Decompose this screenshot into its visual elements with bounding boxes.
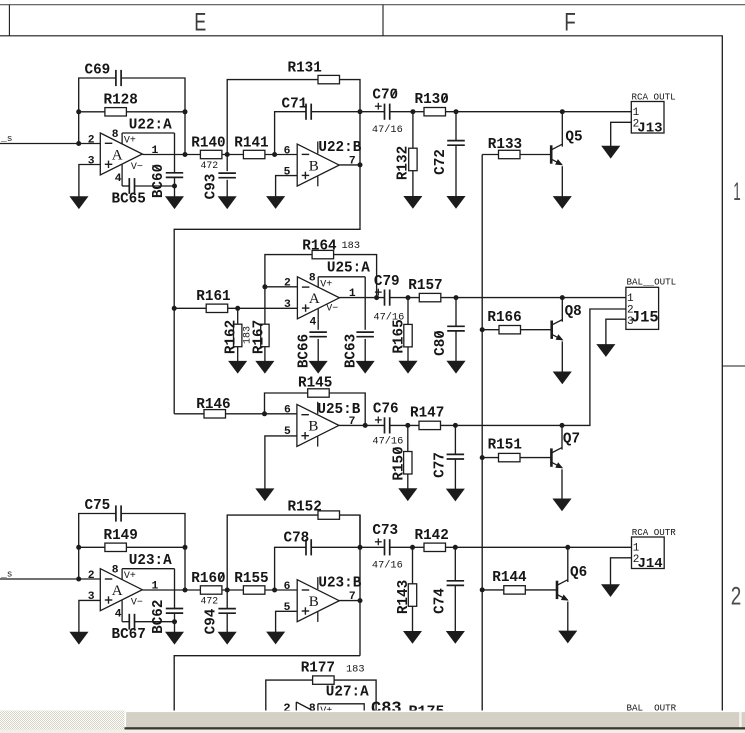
junction Q8 collector node [560, 295, 565, 300]
wire U23:A pin3 to ground [79, 600, 100, 632]
svg-text:C78: C78 [284, 531, 310, 547]
wire C94 lower [226, 613, 228, 632]
junction input node U22:A pin2 [76, 141, 81, 146]
label R157 [408, 278, 442, 294]
junction BC62/BC67 node [172, 619, 177, 624]
label C74 [432, 588, 448, 614]
wire U23 box right edge upper [174, 569, 176, 609]
label BC67 [112, 627, 146, 643]
junction R165 top [406, 295, 411, 300]
resistor R128 [105, 108, 127, 116]
svg-text:C79: C79 [374, 274, 400, 290]
pin 1 label J13 [633, 107, 640, 119]
junction R155/C78 node [272, 588, 277, 593]
value 47/16 of C79 [373, 311, 404, 323]
resistor R161 [206, 304, 228, 312]
svg-text:B: B [309, 594, 319, 610]
wire U22:B pin5 to ground [276, 176, 298, 197]
svg-text:J13: J13 [637, 120, 662, 136]
svg-text:A: A [112, 583, 123, 599]
ground J15 pin3 [597, 345, 615, 357]
wire C74 lower [454, 585, 456, 631]
wire R167 lower [264, 347, 266, 362]
wire R167 upper [264, 287, 266, 324]
resistor R155 [243, 586, 265, 594]
junction R164 output node [374, 295, 379, 300]
connector J13 [631, 102, 664, 134]
row label 1 [733, 178, 741, 206]
capacitor BC63 [356, 332, 374, 337]
pin label 2 U27:A [283, 701, 290, 715]
wire C69 to R128 right leg [121, 78, 185, 112]
label C71 [282, 97, 308, 113]
resistor R149 [105, 543, 127, 551]
pin label 7 U22:B [349, 155, 356, 167]
wire R128 row left [79, 111, 105, 113]
svg-text:R131: R131 [288, 61, 322, 77]
page frame right border [721, 36, 723, 711]
label C76 [373, 401, 399, 417]
wire R144 row [482, 589, 504, 591]
capacitor C76 (polarized) [385, 417, 390, 433]
pin label 2 U23:A [88, 570, 95, 582]
svg-text:_s: _s [0, 569, 12, 580]
svg-text:R177: R177 [301, 661, 335, 677]
pin label 6 U22:B [284, 145, 291, 157]
wire R128 row right [126, 111, 185, 113]
resistor R162 [234, 324, 242, 347]
resistor R177 [313, 676, 335, 684]
ground R132 [404, 196, 422, 208]
svg-text:V−: V− [131, 162, 143, 173]
junction R161 row on rail [172, 306, 177, 311]
label C70 [372, 88, 398, 104]
svg-text:1: 1 [633, 543, 640, 555]
resistor R130 [424, 108, 446, 116]
resistor R164 [312, 250, 334, 258]
wire C72 upper [455, 112, 457, 141]
svg-text:R128: R128 [104, 93, 138, 109]
wire R151 row [482, 457, 498, 459]
pin label 3 U23:A [88, 591, 95, 603]
pin label V+ U25:A [320, 279, 332, 290]
column label F [564, 9, 576, 37]
op-amp U27:A (partial) [296, 702, 364, 711]
svg-text:47/16: 47/16 [372, 124, 403, 136]
label R142 [415, 528, 449, 544]
pin 2 label J14 [633, 554, 640, 566]
svg-text:V−: V− [131, 598, 143, 609]
resistor R133 [499, 150, 521, 158]
svg-text:V+: V+ [124, 571, 136, 582]
wire C71 loop right [311, 111, 360, 113]
label R166 [487, 310, 521, 326]
svg-text:1: 1 [627, 293, 634, 305]
svg-text:C75: C75 [85, 498, 111, 514]
svg-text:BC67: BC67 [112, 627, 146, 643]
wire C80 upper [455, 298, 457, 327]
svg-text:R143: R143 [396, 580, 412, 614]
label U25:B [317, 402, 360, 418]
svg-text:3: 3 [88, 591, 95, 603]
svg-text:U27:A: U27:A [326, 684, 369, 700]
value 47/16 of C76 [372, 436, 403, 448]
op-amp U25:A [297, 277, 365, 320]
wire U23:B pin5 to ground [276, 611, 298, 632]
wire R132 node to R130 [413, 111, 424, 113]
wire U27:A pin2 [276, 711, 296, 713]
label Q7 [563, 432, 580, 448]
plus of C70 [375, 103, 382, 110]
wire R132 upper [412, 112, 414, 149]
wire BC65 to box corner [135, 185, 175, 187]
value 47/16 of C73 [372, 559, 403, 571]
pin 2 label J15 [627, 304, 634, 316]
svg-text:6: 6 [284, 405, 291, 417]
junction C74 top [453, 545, 458, 550]
label C79 [374, 274, 400, 290]
svg-text:8: 8 [112, 129, 119, 141]
svg-text:R147: R147 [410, 406, 444, 422]
label R149 [104, 528, 138, 544]
svg-text:4: 4 [115, 173, 122, 185]
wire U25:A output row [339, 297, 384, 299]
pin label 6 U23:B [284, 581, 291, 593]
junction R145 output node [363, 423, 368, 428]
svg-text:4: 4 [310, 317, 317, 329]
label R130 [415, 92, 449, 108]
junction C77 top [453, 423, 458, 428]
ground Q8 emitter [554, 372, 572, 384]
svg-text:C77: C77 [432, 452, 448, 478]
svg-text:R164: R164 [302, 239, 337, 255]
resistor R147 [419, 421, 441, 429]
op-amp U23:B [297, 577, 339, 622]
svg-text:2: 2 [88, 570, 95, 582]
svg-text:V+: V+ [320, 279, 332, 290]
label U23:A [129, 553, 172, 569]
svg-text:C80: C80 [433, 330, 449, 356]
pin label V- U22:A [131, 162, 143, 173]
resistor R142 [424, 543, 446, 551]
wire U23:B output [339, 600, 360, 602]
label R133 [488, 137, 522, 153]
svg-text:C72: C72 [433, 149, 449, 175]
ground U23:B pin5 [267, 632, 285, 644]
resistor R165 [404, 324, 412, 347]
pin label 2 U22:A [88, 134, 95, 146]
net label _s (left input lower) [0, 569, 12, 580]
ground C77 [447, 489, 465, 501]
svg-text:R157: R157 [408, 278, 442, 294]
wire input to U23:A pin2 [0, 578, 100, 580]
wire U22:A V- bottom wire [122, 185, 129, 187]
wire J13 pin2 to ground [611, 122, 632, 146]
svg-text:3: 3 [284, 299, 291, 311]
wire R131 loop left leg [227, 80, 318, 155]
column label E [194, 9, 206, 37]
wire Q7 collector [561, 425, 563, 449]
junction Q6 collector node [565, 545, 570, 550]
svg-text:V+: V+ [124, 136, 136, 147]
wire stage feed U23:B to U27 input rail [174, 656, 360, 711]
svg-text:8: 8 [309, 273, 316, 285]
resistor R166 [499, 326, 521, 334]
svg-text:R165: R165 [392, 319, 408, 353]
wire C78 loop left leg [275, 547, 306, 590]
window strip below scrollbar [0, 730, 745, 733]
op-amp U25:B [297, 402, 339, 447]
resistor R151 [499, 453, 521, 461]
svg-text:R155: R155 [234, 571, 268, 587]
resistor R132 [409, 148, 417, 171]
value 472 of R140 [201, 160, 219, 171]
svg-text:1: 1 [633, 107, 640, 119]
transistor Q8 [552, 320, 564, 341]
junction C73 row tap [358, 545, 363, 550]
svg-text:B: B [308, 419, 318, 435]
op-amp U22:A [100, 133, 174, 186]
capacitor BC66 [309, 332, 327, 337]
capacitor BC60 [166, 173, 183, 178]
wire C72 lower [455, 145, 457, 196]
svg-text:C74: C74 [432, 588, 448, 614]
capacitor C69 [116, 70, 121, 86]
wire C71 loop left leg [275, 112, 306, 155]
svg-text:Q8: Q8 [565, 304, 582, 320]
svg-text:J14: J14 [638, 556, 663, 572]
pin label 2 U25:A [284, 278, 291, 290]
ground C74 [447, 631, 465, 643]
junction input node U23:A pin2 [76, 577, 81, 582]
junction R160/R155 node [225, 588, 230, 593]
wire R160 to R155 [222, 589, 244, 591]
wire J15 pin3 to ground [606, 319, 626, 344]
junction R128 left [76, 109, 81, 114]
wire R177 loop left leg [266, 680, 313, 710]
ground R165 [399, 361, 417, 373]
wire U22:B output [339, 164, 360, 166]
ground Q5 emitter [554, 197, 572, 209]
svg-text:Q7: Q7 [563, 432, 580, 448]
wire R165 upper [407, 298, 409, 325]
page frame left tick [8, 5, 10, 36]
svg-text:C70: C70 [372, 88, 398, 104]
wire Q7 emitter [561, 469, 563, 499]
wire node vertical to output row U23 [184, 547, 186, 590]
svg-text:Q6: Q6 [570, 565, 587, 581]
svg-text:5: 5 [284, 166, 291, 178]
svg-text:R144: R144 [492, 570, 527, 586]
svg-text:472: 472 [201, 160, 219, 171]
label R132 [396, 146, 412, 180]
wire C93 lower [226, 180, 228, 197]
wire BC63 upper (box right edge) [364, 277, 366, 330]
pin label V+ U27:A [320, 706, 332, 717]
label C73 [372, 523, 398, 539]
junction C72 top [454, 109, 459, 114]
svg-text:C73: C73 [372, 523, 398, 539]
svg-text:B: B [309, 158, 319, 174]
label Q8 [565, 304, 582, 320]
label Q6 [570, 565, 587, 581]
capacitor C79 (polarized) [385, 290, 390, 306]
label R141 [234, 136, 268, 152]
pin label 1 U22:A [152, 145, 159, 157]
pin label 8 U22:A [112, 129, 119, 141]
page frame E/F divider [382, 5, 384, 36]
wire R150 lower [407, 474, 409, 489]
label R144 [492, 570, 527, 586]
wire U25:A pin2 [265, 286, 298, 288]
junction U25:A pin2 feedback [262, 284, 267, 289]
svg-text:V−: V− [326, 303, 338, 314]
pin label 4 U25:A [310, 317, 317, 329]
resistor R140 [200, 150, 222, 158]
wire C73 row left [360, 546, 384, 548]
wire Q8 emitter [561, 341, 563, 372]
wire stage feed U22:B to U25 input rail [174, 227, 360, 414]
pin label 1 U25:A [349, 288, 356, 300]
ground R162 [229, 361, 247, 373]
wire R142 to J14 [446, 546, 632, 548]
op-amp U23:A [100, 569, 174, 622]
wire R141 to U22:B pin6 [265, 154, 297, 156]
label R151 [488, 438, 522, 454]
junction R144 on rail [480, 587, 485, 592]
wire base drive rail [481, 155, 483, 711]
wire R149 row left [79, 546, 105, 548]
pin label 3 U22:A [88, 155, 95, 167]
svg-text:BC65: BC65 [112, 192, 146, 208]
resistor R143 [408, 584, 416, 607]
svg-text:3: 3 [88, 155, 95, 167]
ground J13 pin2 [602, 146, 620, 158]
capacitor C94 [218, 609, 236, 614]
junction output U22:B [358, 162, 363, 167]
resistor R150 [404, 452, 412, 475]
wire BC67 to box corner [135, 621, 175, 623]
svg-text:R141: R141 [234, 136, 268, 152]
ground BC66 [309, 361, 327, 373]
resistor R146 [204, 410, 226, 418]
junction C70 row tap [358, 109, 363, 114]
capacitor C72 [447, 141, 465, 146]
label C94 [204, 608, 220, 634]
wire R162 lower [237, 347, 239, 362]
wire C77 upper [454, 425, 456, 454]
net label RCA OUTR [632, 527, 677, 538]
label C80 [433, 330, 449, 356]
wire R130 to J13 [446, 111, 632, 113]
wire R161 to U25:A pin3 [228, 307, 298, 309]
label C77 [432, 452, 448, 478]
svg-text:R140: R140 [191, 136, 225, 152]
svg-text:7: 7 [349, 416, 356, 428]
wire U23 box right edge lower [174, 613, 176, 632]
pin label 4 U23:A [115, 609, 122, 621]
pin label 8 U27:A [309, 703, 316, 715]
wire R133 to Q5 base [520, 154, 551, 156]
junction BC60/BC65 node [172, 184, 177, 189]
pin label 7 U23:B [349, 591, 356, 603]
svg-text:U25:A: U25:A [327, 260, 370, 276]
svg-text:A: A [309, 291, 320, 307]
wire R161 row left [174, 307, 206, 309]
op-amp U22:B [297, 142, 339, 187]
svg-text:2: 2 [731, 583, 742, 611]
wire box right edge upper [174, 133, 176, 173]
ground U22:A pin3 [70, 197, 88, 209]
page frame top border [0, 4, 745, 6]
resistor R152 [318, 511, 340, 519]
capacitor C93 [218, 173, 236, 178]
label R147 [410, 406, 444, 422]
label R175 [409, 704, 445, 721]
pin label 3 U25:A [284, 299, 291, 311]
label R155 [234, 571, 268, 587]
wire Q5 emitter [561, 166, 563, 196]
svg-text:BC62: BC62 [151, 600, 167, 634]
wire U23:A output row [142, 589, 200, 591]
pin label V- U25:A [326, 303, 338, 314]
wire U22:A pin3 to ground [79, 165, 100, 197]
wire C94 upper [226, 590, 228, 609]
wire R149 row right [126, 546, 185, 548]
pin label V+ U22:A [124, 136, 136, 147]
label BC66 [297, 334, 313, 368]
capacitor C75 [116, 505, 121, 521]
capacitor C77 [447, 454, 465, 459]
plus of C79 [375, 289, 382, 296]
net label BAL__OUTR [627, 702, 677, 713]
ground U25:B pin5 [256, 489, 274, 501]
wire R155 to U23:B pin6 [265, 589, 297, 591]
wire R143 node to R142 [413, 546, 425, 548]
resistor R141 [243, 150, 265, 158]
label J15 [631, 309, 659, 327]
wire R143 lower [412, 606, 414, 631]
value 47/16 of C70 [372, 124, 403, 136]
wire R145 loop right leg [329, 393, 365, 425]
wire node B vertical to output row [184, 112, 186, 155]
svg-text:6: 6 [284, 145, 291, 157]
svg-text:C94: C94 [204, 608, 220, 634]
label C83 [371, 699, 402, 718]
scrollbar track [0, 711, 745, 730]
ground U22:A bypass [166, 197, 183, 209]
wire R152 loop right [340, 515, 361, 547]
label U25:A [327, 260, 370, 276]
label R162 [224, 320, 240, 354]
junction R128 right [183, 109, 188, 114]
svg-text:4: 4 [115, 609, 122, 621]
label BC62 [151, 600, 167, 634]
page frame header bottom border [0, 35, 723, 37]
ground U23:A pin3 [70, 632, 88, 644]
svg-text:8: 8 [112, 565, 119, 577]
capacitor C73 (polarized) [385, 539, 390, 555]
value 183 of R177 [346, 664, 365, 676]
label J13 [637, 120, 662, 136]
wire U25:B output row [339, 424, 385, 426]
label R128 [104, 93, 138, 109]
wire R144 to Q6 base [525, 589, 557, 591]
label R140 [191, 136, 225, 152]
svg-text:2: 2 [284, 278, 291, 290]
pin 1 label J14 [633, 543, 640, 555]
wire C76 to R147 [390, 424, 419, 426]
